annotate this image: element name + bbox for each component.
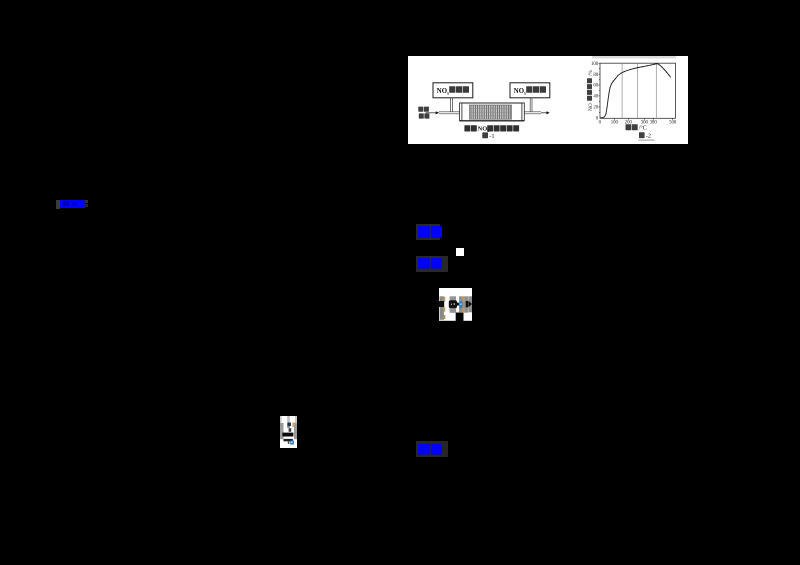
svg-text:-1: -1 <box>489 133 494 140</box>
svg-text:500: 500 <box>669 121 677 126</box>
svg-text:40: 40 <box>593 95 598 100</box>
svg-text:60: 60 <box>593 84 598 89</box>
svg-text:100: 100 <box>611 121 619 126</box>
svg-text:380: 380 <box>650 121 658 126</box>
svg-text:100: 100 <box>591 62 599 67</box>
svg-text:80: 80 <box>593 73 598 78</box>
svg-text:/°C: /°C <box>639 125 647 132</box>
svg-text:NO: NO <box>588 103 594 111</box>
svg-text:-2: -2 <box>646 133 651 140</box>
svg-text:20: 20 <box>593 106 598 111</box>
svg-text:/%: /% <box>588 70 594 76</box>
